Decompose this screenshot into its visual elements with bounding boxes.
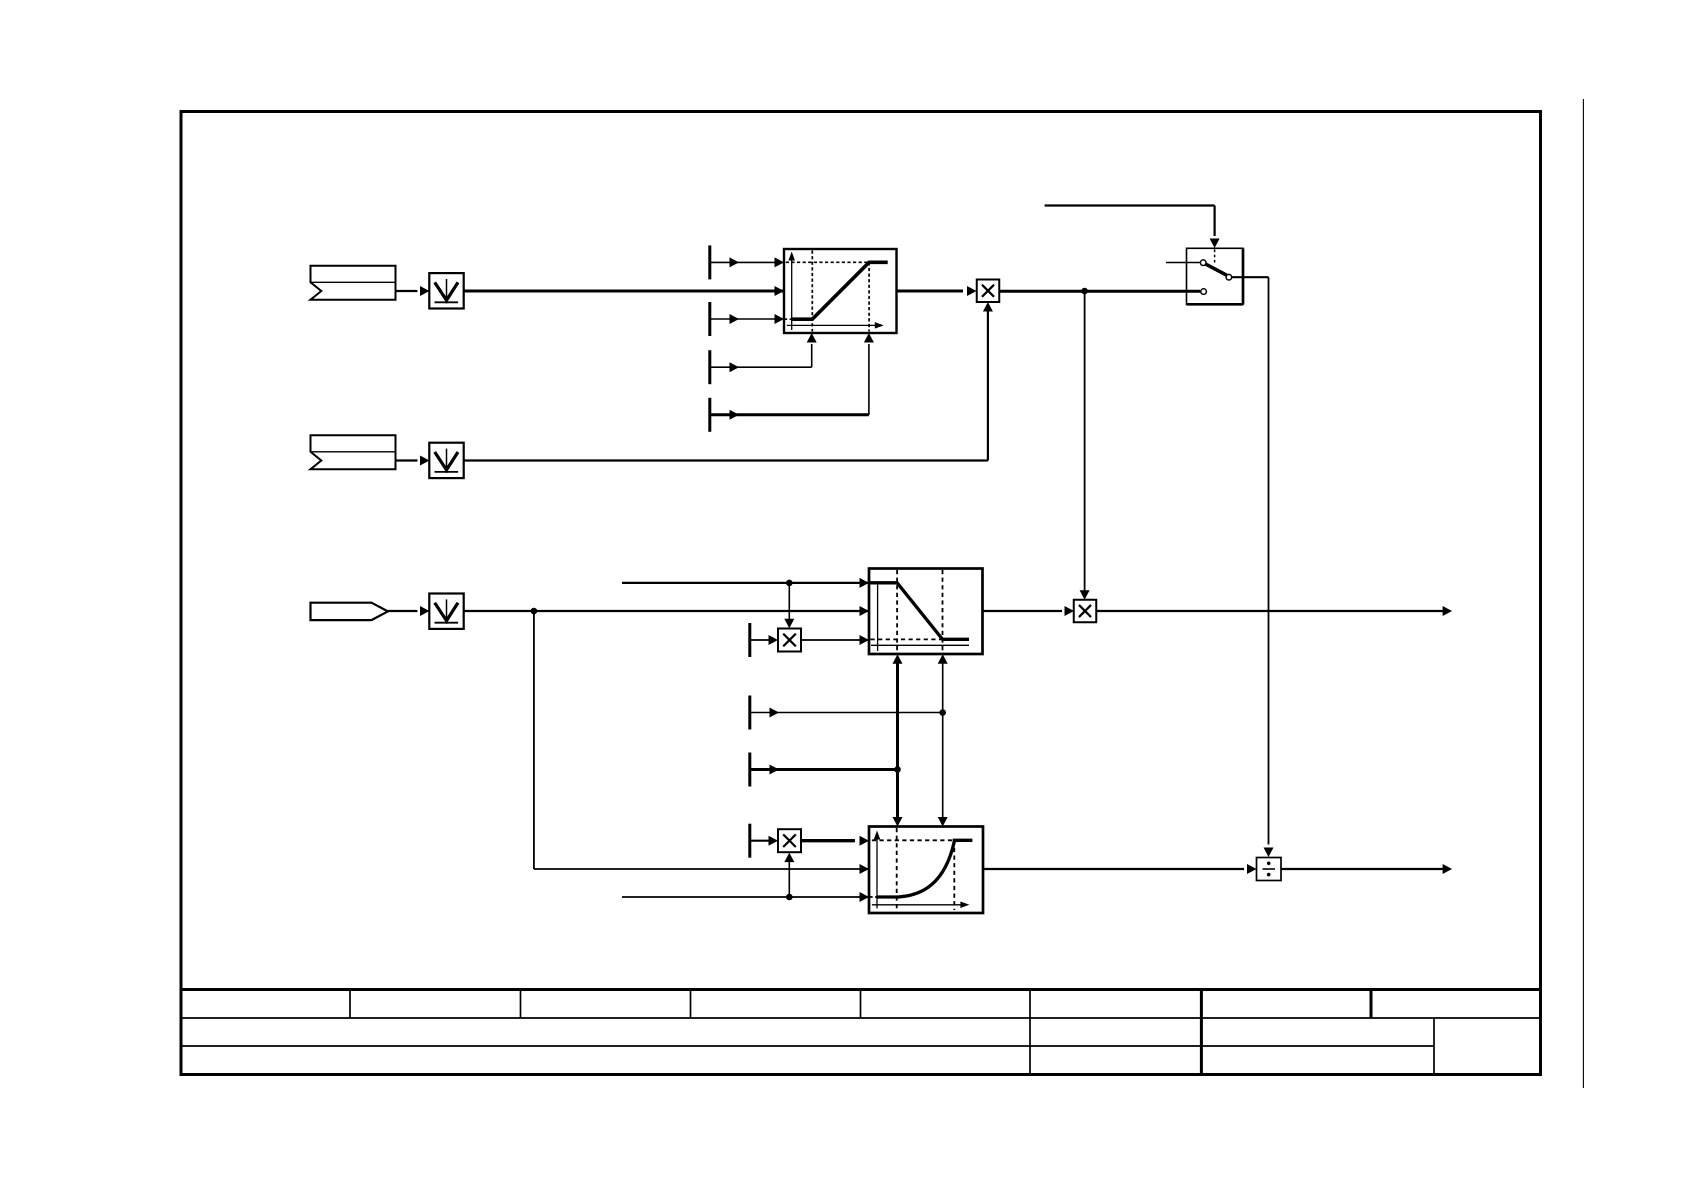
S1 stub input top xyxy=(1166,262,1200,264)
changeover switch S1 xyxy=(1187,248,1244,304)
B3 dotted vertical v1 xyxy=(896,828,898,911)
multiplier M1 xyxy=(977,280,1000,303)
wire K2 to F2 xyxy=(396,459,418,461)
wire F3 to characteristic block B2 xyxy=(464,610,870,612)
parameter bus T1 xyxy=(708,245,711,279)
wire M4 bottom feed xyxy=(788,859,790,898)
B1 dotted vertical t2 xyxy=(868,262,870,331)
B1 dotted level line xyxy=(786,261,869,263)
divider D1 xyxy=(1257,858,1282,881)
B3 exponential curve xyxy=(877,840,972,897)
connector K2 input banner xyxy=(311,435,396,469)
wire N1 down to multiplier M2 xyxy=(1084,291,1086,593)
title block column sep 8 xyxy=(1433,1018,1435,1075)
node N3 junction xyxy=(786,580,793,587)
B2 y-axis xyxy=(877,583,879,651)
B2 dashed vertical v2 xyxy=(942,570,944,653)
B2 droop curve xyxy=(870,583,970,640)
wire S1 output down to divider D1 xyxy=(1232,276,1269,278)
wire B2 to multiplier M2 xyxy=(983,610,1063,612)
title block top rule xyxy=(181,988,1541,991)
B2 dashed vertical v1 xyxy=(896,570,898,653)
output arrow bottom xyxy=(1443,864,1453,874)
multiplier M3 xyxy=(778,629,801,652)
wire upper reference into B2 xyxy=(622,582,869,584)
node N5 junction xyxy=(894,766,901,773)
B2 x-axis xyxy=(871,644,969,646)
S1 lever xyxy=(1206,264,1226,275)
parameter line P4 upper limit xyxy=(710,413,869,416)
wire D1 to output xyxy=(1281,868,1448,870)
B1 ramp curve xyxy=(784,318,791,320)
title block column sep 1 xyxy=(349,990,351,1019)
wire K3 to F3 xyxy=(388,610,418,612)
B1 dotted vertical t1 xyxy=(811,251,813,332)
S1 control dotted line xyxy=(1214,250,1216,264)
output arrow row3 xyxy=(1443,606,1453,616)
wire B3 to divider D1 xyxy=(983,868,1244,870)
multiplier M2 xyxy=(1074,600,1097,623)
drawing frame border xyxy=(181,112,1541,1075)
wire F1 to ramp generator B1 xyxy=(464,290,785,293)
title block row rule 2 xyxy=(181,1017,1541,1019)
characteristic block B2 xyxy=(869,569,983,655)
S1 contact output xyxy=(1226,274,1232,280)
B3 x-axis xyxy=(872,904,961,906)
parameter line P5 into M3 xyxy=(750,639,770,641)
smoothing block F2 xyxy=(429,443,463,478)
title block column sep 3 xyxy=(690,990,692,1019)
title block column sep 2 xyxy=(520,990,522,1019)
parameter bus T2 xyxy=(748,623,751,657)
B3 dotted vertical v2 xyxy=(953,840,955,910)
node N6 junction xyxy=(786,894,793,901)
wire F2 up to M1 xyxy=(464,459,988,461)
wire B1 to multiplier M1 xyxy=(897,290,964,293)
B3 dotted stub xyxy=(870,896,878,898)
parameter line P6 xyxy=(750,712,943,714)
B3 y-axis xyxy=(876,834,878,908)
vertical link V2 thin between B2 and B3 xyxy=(942,660,944,821)
parameter line P1 ramp-up time xyxy=(710,261,784,263)
switch control wire xyxy=(1045,204,1215,206)
title block column sep 6 thick xyxy=(1200,990,1203,1075)
parameter line P2 ramp-down time xyxy=(710,318,784,320)
multiplier M4 xyxy=(778,829,801,852)
characteristic block B3 xyxy=(869,827,983,914)
wire M3 to B2 xyxy=(801,639,869,641)
S1 contact top-left xyxy=(1200,260,1206,266)
wire N2 down to B3 input xyxy=(533,611,535,869)
B3 dotted level line xyxy=(872,839,954,841)
wire M1 to switch S1 xyxy=(999,290,1200,293)
parameter line P3 lower limit xyxy=(710,366,812,368)
connector K3 input tag xyxy=(311,603,388,620)
title block column sep 5 xyxy=(1029,990,1031,1075)
title block row rule 3 xyxy=(181,1045,1434,1047)
S1 contact bottom-left xyxy=(1201,289,1207,295)
fold mark line right margin xyxy=(1582,99,1584,1088)
node N1 junction xyxy=(1081,288,1088,295)
title block column sep 4 xyxy=(860,990,862,1019)
ramp-function generator B1 xyxy=(784,249,897,333)
wire N3 down to multiplier M3 xyxy=(788,583,790,622)
smoothing block F1 xyxy=(429,273,463,308)
connector K1 input banner xyxy=(311,266,396,300)
parameter line P7 thick xyxy=(750,768,898,771)
vertical link V1 thick between B2 and B3 xyxy=(896,660,899,821)
node N2 junction xyxy=(531,608,538,615)
B2 dashed level line xyxy=(871,638,942,640)
wire K1 to F1 xyxy=(396,290,418,292)
B1 y-axis xyxy=(791,256,793,330)
node N4 junction xyxy=(939,709,946,716)
wire M4 to B3 thick xyxy=(801,839,855,842)
wire M2 to output xyxy=(1096,610,1448,612)
wire lower reference into B3 xyxy=(622,896,869,898)
B1 x-axis xyxy=(787,324,876,326)
title block column sep 7 thick xyxy=(1370,990,1373,1019)
smoothing block F3 xyxy=(429,594,463,629)
parameter line P8 into M4 xyxy=(750,840,770,842)
